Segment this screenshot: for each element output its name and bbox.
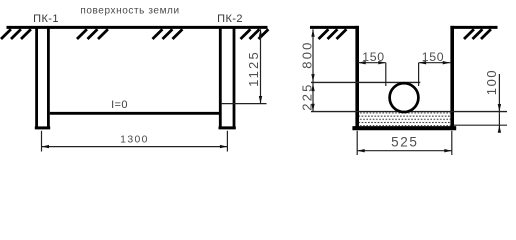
dimension 1300: left arrow <box>42 145 50 148</box>
dimension 525: right arrow <box>444 149 452 152</box>
dimension 150 left: right arrow <box>378 61 386 64</box>
dimension 150 left: line <box>358 62 386 64</box>
hatch group 3 <box>153 29 183 39</box>
dimension 100: lower arrow (points up to bedding bottom) <box>498 125 501 133</box>
ground line right of trench <box>450 26 497 29</box>
dimension 150 right: left arrow <box>419 61 427 64</box>
dimension 150 right: line <box>419 62 451 64</box>
trench right wall <box>450 26 454 128</box>
ground line left of trench <box>310 26 359 29</box>
ground surface line (profile) <box>7 26 268 29</box>
trench bottom line (i=0) <box>50 112 219 115</box>
dimension 800: top arrow <box>311 29 314 37</box>
svg-text:ПК-2: ПК-2 <box>217 13 243 25</box>
dimension 525: line <box>357 150 452 152</box>
bedding layer (stipple) <box>359 112 450 126</box>
hatch group 2 <box>77 29 108 39</box>
hatch group 1 <box>1 29 31 39</box>
trench left wall <box>355 26 359 128</box>
stake ПК-1 <box>35 28 50 128</box>
svg-text:поверхность земли: поверхность земли <box>80 5 179 16</box>
svg-text:100: 100 <box>484 69 499 96</box>
dimension 1125: line <box>260 29 262 103</box>
extension line bedding bottom right <box>454 124 507 126</box>
dimension 1300: right arrow <box>220 145 228 148</box>
dimension 225: bottom arrow <box>311 104 314 112</box>
svg-text:225: 225 <box>299 82 314 110</box>
svg-text:I=0: I=0 <box>111 99 128 111</box>
svg-text:800: 800 <box>299 40 314 68</box>
hatch group right of trench <box>464 29 491 39</box>
dimension 225: top arrow <box>311 84 314 92</box>
dimension 150 right: right arrow <box>443 61 451 64</box>
dimension 100: upper arrow (points down to bedding top) <box>498 104 501 112</box>
dimension 150 left: extension line to pipe <box>385 63 387 86</box>
svg-text:150: 150 <box>362 50 385 64</box>
dimension 800 and 225: shared vertical dimension line <box>312 29 314 111</box>
trench bottom thick line <box>352 126 456 130</box>
svg-text:1125: 1125 <box>246 50 261 87</box>
stake ПК-2 <box>219 28 236 128</box>
extension lines for dimension 525 <box>356 131 358 155</box>
pipe crown extension line <box>311 81 420 83</box>
svg-text:525: 525 <box>391 134 418 149</box>
dimension 525: left arrow <box>357 149 365 152</box>
svg-text:1300: 1300 <box>120 134 149 145</box>
svg-text:ПК-1: ПК-1 <box>33 13 59 25</box>
dimension 150 left: left arrow <box>358 61 366 64</box>
dimension 800: bottom arrow <box>311 74 314 82</box>
dimension 100: line <box>498 74 500 132</box>
hatch group left of trench <box>319 29 347 39</box>
dimension 1125: bottom arrow <box>259 96 262 104</box>
bedding top line / extension lines to side dims <box>311 111 507 113</box>
dimension 150 right: extension line to pipe <box>418 63 420 86</box>
hatch group 4 <box>241 29 269 39</box>
pipe (circle) <box>390 83 419 112</box>
svg-text:150: 150 <box>422 50 445 64</box>
extension line for dimension 1125 (bottom reference) <box>221 103 267 105</box>
dimension 1300: line <box>42 146 228 148</box>
extension lines for dimension 1300 <box>41 131 43 152</box>
dimension 1125: top arrow <box>259 29 262 37</box>
